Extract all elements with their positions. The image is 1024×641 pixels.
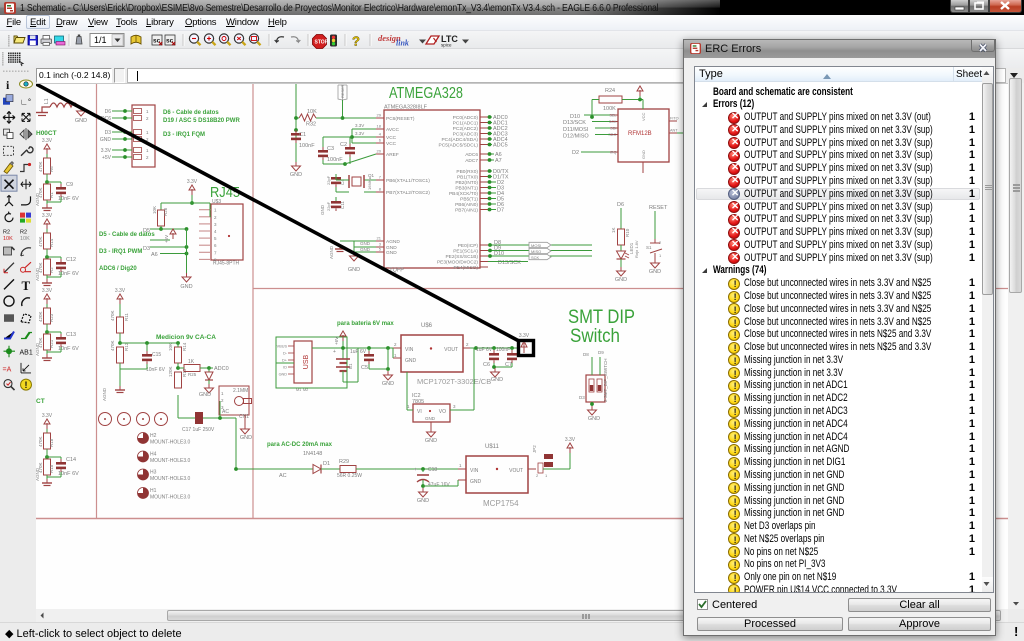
svg-text:U$11: U$11 xyxy=(485,444,500,450)
svg-text:56R 0.25W: 56R 0.25W xyxy=(337,473,362,479)
svg-text:3: 3 xyxy=(214,222,217,227)
capacitor C11 22pF xyxy=(331,201,341,204)
svg-text:∟°: ∟° xyxy=(20,98,31,107)
svg-text:1/1: 1/1 xyxy=(94,35,107,45)
pin PC5(ADC5/SDCL) xyxy=(480,144,488,146)
svg-text:SMT DIP: SMT DIP xyxy=(568,307,635,328)
mount hole H4 xyxy=(138,451,149,462)
svg-text:3.3V: 3.3V xyxy=(115,288,126,294)
svg-text:D3 - IRQ1 PWM: D3 - IRQ1 PWM xyxy=(99,249,142,255)
analog ground AGND center xyxy=(119,386,121,390)
connector J5 terminal block xyxy=(132,105,155,167)
svg-text:D19 / ASC 5 DS18B20 PWR: D19 / ASC 5 DS18B20 PWR xyxy=(163,118,240,124)
svg-text:1uF 6V: 1uF 6V xyxy=(476,347,493,353)
svg-text:C15: C15 xyxy=(152,352,161,358)
svg-text:+5V: +5V xyxy=(164,235,169,243)
pin ADC6 xyxy=(480,153,488,155)
resistor R21 xyxy=(46,330,48,334)
svg-text:C13: C13 xyxy=(66,332,76,338)
svg-text:para AC-DC 20mA max: para AC-DC 20mA max xyxy=(267,442,333,448)
svg-text:M1: M1 xyxy=(296,388,301,392)
svg-text:C1: C1 xyxy=(299,132,306,138)
svg-text:470K: 470K xyxy=(110,310,115,321)
svg-text:1: 1 xyxy=(214,208,217,213)
svg-text:420K: 420K xyxy=(38,311,43,322)
svg-text:H3: H3 xyxy=(150,470,157,476)
svg-text:GND: GND xyxy=(348,267,360,273)
scrollbars xyxy=(1008,83,1024,609)
svg-text:GND: GND xyxy=(649,269,661,275)
svg-text:3.3V: 3.3V xyxy=(635,84,646,86)
svg-text:GND: GND xyxy=(588,416,600,422)
analog ground AGND xyxy=(46,479,48,483)
toolbar row 2 xyxy=(0,49,1024,68)
svg-text:D3: D3 xyxy=(105,130,112,136)
svg-text:PB6(XTAL1/TOSC1): PB6(XTAL1/TOSC1) xyxy=(386,178,430,184)
resistor R13 120K xyxy=(175,372,182,388)
svg-text:D2: D2 xyxy=(572,150,579,156)
svg-text:VOUT: VOUT xyxy=(509,468,523,474)
USB connector CON1 xyxy=(276,337,347,388)
vertical bus xyxy=(186,229,188,273)
status bar xyxy=(0,622,1024,641)
svg-text:GND: GND xyxy=(382,381,394,387)
svg-text:D3: D3 xyxy=(579,395,585,400)
resistor R14 470K xyxy=(46,229,48,233)
pin RJ45-3 xyxy=(199,223,211,225)
svg-text:JP2: JP2 xyxy=(532,445,537,453)
pin VCC xyxy=(376,142,384,144)
svg-text:AC: AC xyxy=(279,473,287,479)
svg-text:3.3V: 3.3V xyxy=(355,131,364,136)
svg-text:PB2(INT0): PB2(INT0) xyxy=(455,180,478,186)
svg-text:GND: GND xyxy=(75,118,87,124)
pin wire J5-5 xyxy=(112,149,132,151)
svg-text:1: 1 xyxy=(146,130,149,135)
svg-text:22pF: 22pF xyxy=(326,201,331,211)
ground IC2 xyxy=(430,422,432,428)
pin PC0(ADC0) xyxy=(480,116,488,118)
wire R24 to 3.3V xyxy=(622,99,643,101)
svg-text:GND: GND xyxy=(491,377,503,383)
RESET flag xyxy=(338,85,347,100)
net D10 long wire xyxy=(488,255,592,257)
svg-text:R15: R15 xyxy=(49,464,54,473)
svg-text:C9: C9 xyxy=(66,182,73,188)
ground CN1 xyxy=(244,415,246,425)
pin PB7(XTAL2/TOSC2) xyxy=(376,191,384,193)
+6V arrow xyxy=(342,335,344,341)
pin PB6(AIN0) xyxy=(480,203,488,205)
svg-text:RESET: RESET xyxy=(340,84,345,98)
svg-text:R26: R26 xyxy=(163,207,168,216)
svg-text:C6: C6 xyxy=(483,362,490,368)
svg-text:D5 - Cable de datos: D5 - Cable de datos xyxy=(99,232,155,238)
svg-text:CN1: CN1 xyxy=(239,414,249,420)
pin ADC7 xyxy=(480,159,488,161)
ground C18 xyxy=(422,488,424,492)
svg-text:AGND: AGND xyxy=(329,245,334,259)
svg-text:ATMEGA328: ATMEGA328 xyxy=(389,85,463,102)
capacitor C1 100nF xyxy=(291,133,301,136)
svg-text:STOP: STOP xyxy=(315,40,329,46)
svg-text:PE3(MOO/D#OC2): PE3(MOO/D#OC2) xyxy=(437,260,478,266)
svg-text:6: 6 xyxy=(214,243,217,248)
svg-text:VCC: VCC xyxy=(386,141,397,147)
pin PB1(TX0) xyxy=(480,176,488,178)
svg-text:AGND: AGND xyxy=(36,342,40,356)
svg-text:H2: H2 xyxy=(150,433,157,439)
wire IC2 VO to 3.3V rail xyxy=(450,409,474,411)
AGND wire xyxy=(340,240,354,242)
toolbar row 1 xyxy=(0,31,1024,49)
svg-text:PE4(MISO): PE4(MISO) xyxy=(453,265,478,271)
svg-text:C11: C11 xyxy=(340,201,345,209)
svg-text:1N4148: 1N4148 xyxy=(303,451,322,457)
wire 3.3V to pin2 xyxy=(161,202,210,204)
ground at L1 xyxy=(80,107,82,111)
pin PB5(T1) xyxy=(480,198,488,200)
svg-text:PE1(SC1A): PE1(SC1A) xyxy=(453,249,478,255)
svg-text:ADC7: ADC7 xyxy=(465,158,478,164)
resistor R11 470K xyxy=(119,298,121,304)
resistor R2 xyxy=(46,255,48,259)
svg-text:2 SMT_DIP_SWITCH: 2 SMT_DIP_SWITCH xyxy=(603,358,608,402)
net ADC2 xyxy=(488,127,492,129)
svg-text:Medicion 9v CA-CA: Medicion 9v CA-CA xyxy=(156,334,216,341)
svg-text:ANT: ANT xyxy=(670,129,678,133)
svg-text:C3: C3 xyxy=(327,146,334,152)
RFM12B pins xyxy=(610,114,618,116)
svg-text:22pF: 22pF xyxy=(326,175,331,185)
svg-text:120K: 120K xyxy=(168,366,173,377)
resistor R18 470K xyxy=(46,429,48,433)
capacitor C12 10nF 6V xyxy=(47,256,61,258)
svg-text:AVCC: AVCC xyxy=(386,127,400,133)
ground ATMEGA xyxy=(354,240,376,242)
connector U$3 RJ45-8PTH xyxy=(211,204,243,260)
capacitor C5 1uF xyxy=(368,348,370,351)
svg-text:470K: 470K xyxy=(38,161,43,172)
ground diode xyxy=(208,380,210,384)
svg-text:VCC: VCC xyxy=(386,135,397,141)
svg-text:PB3(INT1): PB3(INT1) xyxy=(455,186,478,192)
analog ground AGND xyxy=(46,354,48,358)
svg-text:18: 18 xyxy=(377,124,382,129)
pin PE1(SC1A) xyxy=(480,250,488,252)
svg-text:3: 3 xyxy=(453,404,456,409)
diode D2 zener xyxy=(208,368,210,372)
selection target box xyxy=(519,341,534,356)
pin PB7(AIN1) xyxy=(480,209,488,211)
switch S2 DIP xyxy=(586,375,605,402)
svg-text:20: 20 xyxy=(377,149,382,154)
svg-text:D8: D8 xyxy=(583,352,589,357)
svg-text:CT: CT xyxy=(36,398,45,405)
svg-text:7: 7 xyxy=(379,175,382,180)
LED1 xyxy=(620,245,622,251)
svg-text:D10: D10 xyxy=(494,251,504,257)
svg-text:2: 2 xyxy=(659,240,662,245)
svg-text:10K: 10K xyxy=(307,109,317,115)
wire ANT xyxy=(677,132,684,134)
svg-text:R14: R14 xyxy=(182,342,187,351)
net ADC5 xyxy=(488,144,492,146)
wire VOUT rail to 3.3V tag xyxy=(470,347,518,349)
selection rubber-band line xyxy=(36,84,518,341)
svg-text:C17 1uF 250V: C17 1uF 250V xyxy=(182,427,215,433)
ground DIP xyxy=(591,402,593,406)
ERC Errors dialog xyxy=(683,39,996,636)
svg-text:PC4(ADC4/SDA): PC4(ADC4/SDA) xyxy=(441,137,478,143)
svg-text:GND: GND xyxy=(320,204,325,215)
svg-text:D-: D- xyxy=(283,352,288,356)
svg-text:470K: 470K xyxy=(38,236,43,247)
pin PC6(RESET) xyxy=(376,117,384,119)
svg-text:PC3(ADC3): PC3(ADC3) xyxy=(453,132,479,138)
svg-text:GND: GND xyxy=(199,392,211,398)
IC U2 RFM12B xyxy=(618,109,669,162)
svg-text:PC1(ADC1): PC1(ADC1) xyxy=(453,121,479,127)
svg-text:GND: GND xyxy=(425,416,436,421)
svg-text:IRQ: IRQ xyxy=(610,151,617,155)
svg-text:GND: GND xyxy=(641,150,646,159)
svg-text:+: + xyxy=(414,467,417,473)
svg-text:sc: sc xyxy=(166,38,174,45)
net D6 xyxy=(488,203,496,205)
supply 3.3V arrow R23 block xyxy=(46,298,48,304)
svg-text:spice: spice xyxy=(441,43,452,48)
svg-text:RFM12B: RFM12B xyxy=(628,131,652,137)
pin PC2(ADC2) xyxy=(480,127,488,129)
svg-text:=A: =A xyxy=(3,366,12,373)
svg-text:AB1: AB1 xyxy=(20,350,33,357)
svg-text:A6: A6 xyxy=(151,252,158,258)
svg-text:D13/SCK: D13/SCK xyxy=(498,260,521,266)
svg-text:R23: R23 xyxy=(49,313,54,322)
pin wire J5-4 xyxy=(112,138,132,140)
net ADC3 xyxy=(488,133,492,135)
svg-text:4: 4 xyxy=(214,229,217,234)
svg-text:D11/MOSI: D11/MOSI xyxy=(563,127,589,133)
wire 3.3V rail to R32 xyxy=(295,84,297,162)
net D0/TX xyxy=(488,170,492,172)
svg-text:PE2(SS/SC1B): PE2(SS/SC1B) xyxy=(445,254,478,260)
svg-text:2: 2 xyxy=(146,155,149,160)
svg-text:S1: S1 xyxy=(646,245,652,250)
svg-text:SCK: SCK xyxy=(531,255,540,260)
wires crystal xyxy=(335,174,337,180)
svg-text:R29: R29 xyxy=(339,459,349,465)
svg-text:D13/SCK: D13/SCK xyxy=(563,120,586,126)
svg-text:D+: D+ xyxy=(282,359,288,363)
resistor R26 xyxy=(160,203,162,210)
svg-text:GND: GND xyxy=(360,247,371,252)
svg-text:H1: H1 xyxy=(150,488,157,494)
net ADC1 xyxy=(488,122,492,124)
svg-text:MCP1754: MCP1754 xyxy=(483,499,519,508)
svg-text:R10: R10 xyxy=(625,228,630,237)
net D7 xyxy=(488,209,496,211)
mount hole H2 xyxy=(138,433,149,444)
net D2 xyxy=(488,181,496,183)
svg-text:MCP1702T-3302E/CB: MCP1702T-3302E/CB xyxy=(417,377,491,386)
capacitor C9 10nF 6V xyxy=(47,181,61,183)
capacitor C17 film xyxy=(219,401,221,418)
svg-text:1: 1 xyxy=(407,404,410,409)
svg-text:PB4(XCK/T0): PB4(XCK/T0) xyxy=(449,191,478,197)
svg-text:VI: VI xyxy=(417,409,422,415)
net ADC4 xyxy=(488,138,492,140)
svg-text:2: 2 xyxy=(466,342,469,347)
svg-text:D6 - Cable de datos: D6 - Cable de datos xyxy=(163,110,219,116)
svg-text:AGND: AGND xyxy=(36,467,40,481)
svg-text:H4: H4 xyxy=(150,452,157,458)
pin RJ45-8 xyxy=(199,258,211,260)
pin PE2(SS/SC1B) xyxy=(480,255,488,257)
RFM12B VCC/GND stubs xyxy=(642,100,644,110)
capacitor C2 AREF xyxy=(345,147,355,150)
svg-text:PC0(ADC0): PC0(ADC0) xyxy=(453,115,479,121)
net D8 long wire xyxy=(488,244,592,246)
wire RESET to PC6 xyxy=(342,100,344,118)
svg-text:VCC: VCC xyxy=(641,112,646,121)
capacitor C13 10nF 6V xyxy=(47,331,61,333)
svg-text:10K: 10K xyxy=(3,236,13,242)
svg-text:GND: GND xyxy=(615,277,627,283)
resistor R1 xyxy=(46,180,48,184)
svg-text:GND: GND xyxy=(470,479,482,485)
svg-text:AGND: AGND xyxy=(36,267,40,281)
net D9 long wire xyxy=(488,250,592,252)
svg-text:MOSI: MOSI xyxy=(531,243,541,248)
svg-text:2: 2 xyxy=(221,398,224,403)
wire to R14/C15 xyxy=(120,342,178,344)
svg-text:8: 8 xyxy=(379,187,382,192)
svg-text:10K: 10K xyxy=(168,343,173,351)
svg-text:GND: GND xyxy=(279,373,288,377)
capacitor C3 xyxy=(318,150,328,153)
switch S1 xyxy=(654,211,656,239)
svg-text:10K: 10K xyxy=(152,206,157,214)
supply 3.3V arrow R14 block xyxy=(46,223,48,229)
svg-text:FITO: FITO xyxy=(670,117,679,121)
svg-text:SDI: SDI xyxy=(610,127,616,131)
svg-text:1: 1 xyxy=(394,353,397,358)
schematic sheet frame xyxy=(96,84,98,519)
wire JP2 to 3.3V xyxy=(543,468,570,470)
ground S1 xyxy=(654,259,656,263)
svg-text:100K: 100K xyxy=(603,106,616,112)
svg-text:AGND: AGND xyxy=(386,239,400,245)
pin RJ45-7 xyxy=(199,251,211,253)
svg-text:GND: GND xyxy=(425,438,437,444)
svg-text:PB0(RX0): PB0(RX0) xyxy=(456,169,478,175)
net D3 xyxy=(488,187,496,189)
pin wire J5-2 xyxy=(112,117,132,119)
svg-text:3.3V: 3.3V xyxy=(101,148,112,154)
pin PB4(XCK/T0) xyxy=(480,192,488,194)
pin AGND xyxy=(376,240,384,242)
svg-text:sc: sc xyxy=(153,38,161,45)
svg-text:R2: R2 xyxy=(3,229,10,235)
svg-text:Q1: Q1 xyxy=(368,173,375,178)
net D4 xyxy=(488,192,496,194)
pin VCC xyxy=(376,136,384,138)
capacitor C4 22pF xyxy=(331,177,341,180)
svg-text:GND: GND xyxy=(360,241,371,246)
svg-text:R1: R1 xyxy=(49,192,54,198)
svg-text:100nF: 100nF xyxy=(299,143,315,149)
svg-text:3.3V: 3.3V xyxy=(42,138,53,144)
svg-text:MOUNT-HOLE3.0: MOUNT-HOLE3.0 xyxy=(150,495,191,501)
svg-text:U$6: U$6 xyxy=(421,323,433,329)
capacitor C15 xyxy=(146,343,148,351)
svg-text:PB7(AIN1): PB7(AIN1) xyxy=(455,208,478,214)
pin PB6(XTAL1/TOSC1) xyxy=(376,179,384,181)
svg-text:AREF: AREF xyxy=(386,152,399,158)
resistor R10 1K xyxy=(620,208,622,229)
svg-text:Rojo 1.8V: Rojo 1.8V xyxy=(634,240,639,258)
svg-text:47uF 16V: 47uF 16V xyxy=(428,482,450,488)
net D5 xyxy=(488,198,496,200)
pin GND xyxy=(376,246,384,248)
svg-text:D6: D6 xyxy=(617,202,624,208)
svg-text:D1: D1 xyxy=(323,461,330,467)
pin PE0(ICP) xyxy=(480,244,488,246)
pin AREF xyxy=(376,153,384,155)
pin wire J5-1 xyxy=(112,110,132,112)
svg-text:GND: GND xyxy=(180,284,192,290)
svg-text:100nF: 100nF xyxy=(496,347,510,353)
svg-text:!: ! xyxy=(25,380,28,390)
supply 3.3V arrow R6 block xyxy=(46,148,48,154)
svg-text:PB6(AIN0): PB6(AIN0) xyxy=(455,202,478,208)
svg-text:21: 21 xyxy=(377,236,382,241)
diode D1 xyxy=(313,465,321,474)
svg-text:T: T xyxy=(22,278,31,293)
svg-text:1: 1 xyxy=(221,391,224,396)
VCC wires xyxy=(352,128,376,130)
wires USB/battery to VIN rail xyxy=(275,348,277,363)
svg-text:GND: GND xyxy=(417,498,429,504)
net D1/TX xyxy=(488,176,492,178)
svg-text:GND: GND xyxy=(240,435,252,441)
svg-text:R25: R25 xyxy=(188,372,197,377)
svg-text:2: 2 xyxy=(536,473,539,478)
svg-text:ADC0: ADC0 xyxy=(214,366,229,372)
svg-text:PB5(T1): PB5(T1) xyxy=(460,197,478,203)
resistor R12 470K xyxy=(117,347,124,363)
svg-text:VBUS: VBUS xyxy=(277,345,288,349)
svg-text:R14: R14 xyxy=(49,238,54,247)
pin PC4(ADC4/SDA) xyxy=(480,138,488,140)
svg-text:C14: C14 xyxy=(66,457,76,463)
fiducial circle at 105 xyxy=(99,413,112,426)
net A6 xyxy=(488,153,494,155)
svg-text:1: 1 xyxy=(659,253,662,258)
svg-text:PE0(ICP): PE0(ICP) xyxy=(458,243,479,249)
svg-text:7: 7 xyxy=(214,250,217,255)
svg-text:GND: GND xyxy=(405,358,417,364)
svg-text:6: 6 xyxy=(379,138,382,143)
svg-text:PC5(ADC5/SDCL): PC5(ADC5/SDCL) xyxy=(439,143,479,149)
svg-text:3.3V: 3.3V xyxy=(42,413,53,419)
analog ground AGND xyxy=(46,279,48,283)
pin RJ45-5 xyxy=(199,237,211,239)
svg-text:AGND: AGND xyxy=(102,387,107,401)
supply 3.3V arrow RJ45 xyxy=(191,189,193,195)
